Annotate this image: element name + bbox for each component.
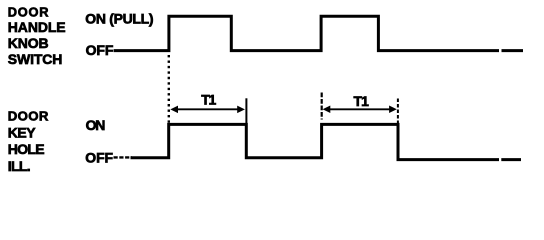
svg-text:DOOR: DOOR — [8, 108, 49, 123]
signal label DOOR KEY HOLE ILL. — [8, 108, 49, 174]
svg-text:ON: ON — [86, 117, 106, 133]
svg-text:KNOB: KNOB — [8, 35, 49, 51]
signal label DOOR HANDLE KNOB SWITCH — [8, 5, 66, 68]
timing boundary line at end of second T1 (dashed) — [397, 99, 399, 124]
svg-text:HANDLE: HANDLE — [8, 19, 66, 35]
wire: door key hole illumination waveform (dashed lead-in) — [114, 156, 133, 158]
svg-text:KEY: KEY — [8, 125, 36, 141]
svg-text:OFF: OFF — [85, 149, 113, 165]
wire: door key hole illumination waveform — [131, 124, 522, 159]
svg-text:DOOR: DOOR — [8, 5, 49, 20]
svg-text:HOLE: HOLE — [8, 141, 44, 157]
svg-text:ON (PULL): ON (PULL) — [85, 10, 153, 26]
dimension arrow T1 (first) — [170, 106, 245, 114]
dashed timing reference line at second rising edge — [321, 93, 323, 120]
svg-text:T1: T1 — [354, 93, 370, 109]
dashed timing reference line at first rising edge — [168, 55, 170, 124]
svg-text:T1: T1 — [201, 92, 216, 108]
timing boundary line at end of first T1 — [245, 98, 247, 124]
dimension arrow T1 (second) — [323, 106, 397, 114]
svg-text:ILL.: ILL. — [8, 158, 30, 174]
wire: door handle knob switch waveform — [114, 16, 523, 50]
svg-text:OFF: OFF — [86, 42, 114, 58]
svg-text:SWITCH: SWITCH — [8, 51, 63, 67]
